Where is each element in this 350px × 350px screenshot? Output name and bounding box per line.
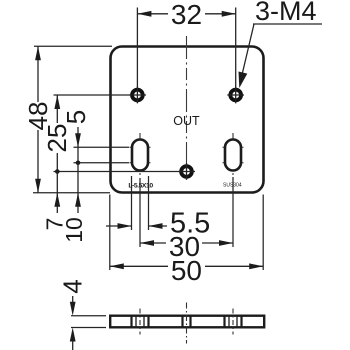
extension line 5.5 right (slot edge)	[148, 176, 150, 230]
extension line 30 right (slot center)	[232, 177, 234, 247]
dimension line 25	[56, 95, 58, 172]
side view slot-left centerline	[139, 309, 141, 335]
arrow 50 left	[110, 263, 124, 269]
dimension line 5.5	[106, 225, 167, 227]
dot terminator 25/7	[55, 169, 60, 174]
svg-text:32: 32	[171, 0, 202, 30]
svg-text:3-M4: 3-M4	[255, 0, 317, 26]
svg-text:4: 4	[58, 279, 88, 293]
arrow 32 right	[222, 11, 236, 17]
arrow 10 (below, pointing up)	[75, 193, 81, 207]
arrow 30 left	[140, 240, 154, 246]
extension line 5.5 left (slot edge)	[131, 176, 133, 230]
side view slot-left edges	[132, 316, 149, 328]
slot left	[130, 133, 151, 177]
extension line, dim 32, left (to hole A)	[136, 8, 138, 89]
leader underline 3-M4	[253, 23, 322, 25]
leader arrowhead 3-M4	[239, 72, 248, 89]
extension line y147.25 (5 dim, slot arc center)	[74, 146, 130, 148]
arrow 7 (below, pointing up)	[54, 193, 60, 207]
dimension line 30	[140, 242, 233, 244]
side view center hole centerline	[186, 303, 188, 344]
side view hole-C edges	[183, 316, 191, 328]
dimension line 48	[37, 47, 39, 193]
extension line 30 left (slot center)	[139, 178, 141, 247]
dimension line 7	[56, 172, 58, 214]
svg-text:10: 10	[61, 217, 87, 243]
extension line y162.75 (5/10 dim, slot arc center)	[74, 162, 130, 164]
arrow 50 right	[249, 263, 263, 269]
arrow 30 right	[219, 240, 233, 246]
extension line, dim 32, right (to hole B)	[235, 8, 237, 89]
extension line bottom y192.8 (48/7/10 dims)	[33, 192, 110, 194]
extension line 50 right (plate edge)	[262, 195, 264, 271]
dimension line 5	[77, 127, 79, 163]
arrow 5.5 right (outside, pointing left)	[149, 223, 163, 229]
extension line top y46 (48 dim)	[34, 45, 112, 47]
extension line 4 top	[71, 315, 106, 317]
hole C (M4 bottom-center)	[178, 163, 195, 180]
extension line y171.5 (25/7 dim, to hole C)	[54, 171, 179, 173]
dot terminator 5/10	[76, 160, 81, 165]
vertical centerline of plate	[186, 36, 188, 178]
arrow 5.5 left (outside, pointing right)	[118, 223, 132, 229]
dimension line 50	[110, 265, 263, 267]
hole A (M4 top-left)	[129, 87, 146, 104]
extension line 4 bottom	[71, 327, 106, 329]
side view slot-right edges	[225, 316, 242, 328]
svg-text:5: 5	[61, 110, 91, 124]
arrow 32 left	[137, 11, 151, 17]
dimension line 32	[137, 13, 235, 15]
arrow 4 upper (pointing down)	[70, 302, 76, 316]
svg-text:50: 50	[171, 255, 202, 286]
side view slot-right centerline	[232, 309, 234, 335]
extension line y95 (25 dim, to hole A)	[54, 94, 130, 96]
arrow 48 top	[35, 46, 41, 60]
dimension line 4 (lower)	[72, 341, 74, 350]
arrow 48 bottom	[35, 179, 41, 193]
dimension line 10	[77, 163, 79, 213]
svg-text:25: 25	[42, 124, 72, 153]
svg-text:OUT: OUT	[173, 114, 200, 128]
extension line 50 left (plate edge)	[109, 195, 111, 271]
leader line 3-M4	[242, 24, 254, 74]
hole B (M4 top-right)	[227, 87, 244, 104]
side view plate body	[110, 316, 264, 328]
arrow 4 lower (pointing up)	[70, 328, 76, 342]
plate outline (front view)	[111, 47, 264, 193]
arrow 5 (pointing down to y147.25)	[75, 133, 81, 147]
slot right	[223, 133, 244, 180]
dimension line 4 (upper)	[72, 296, 74, 303]
arrow 25 top	[54, 95, 60, 109]
